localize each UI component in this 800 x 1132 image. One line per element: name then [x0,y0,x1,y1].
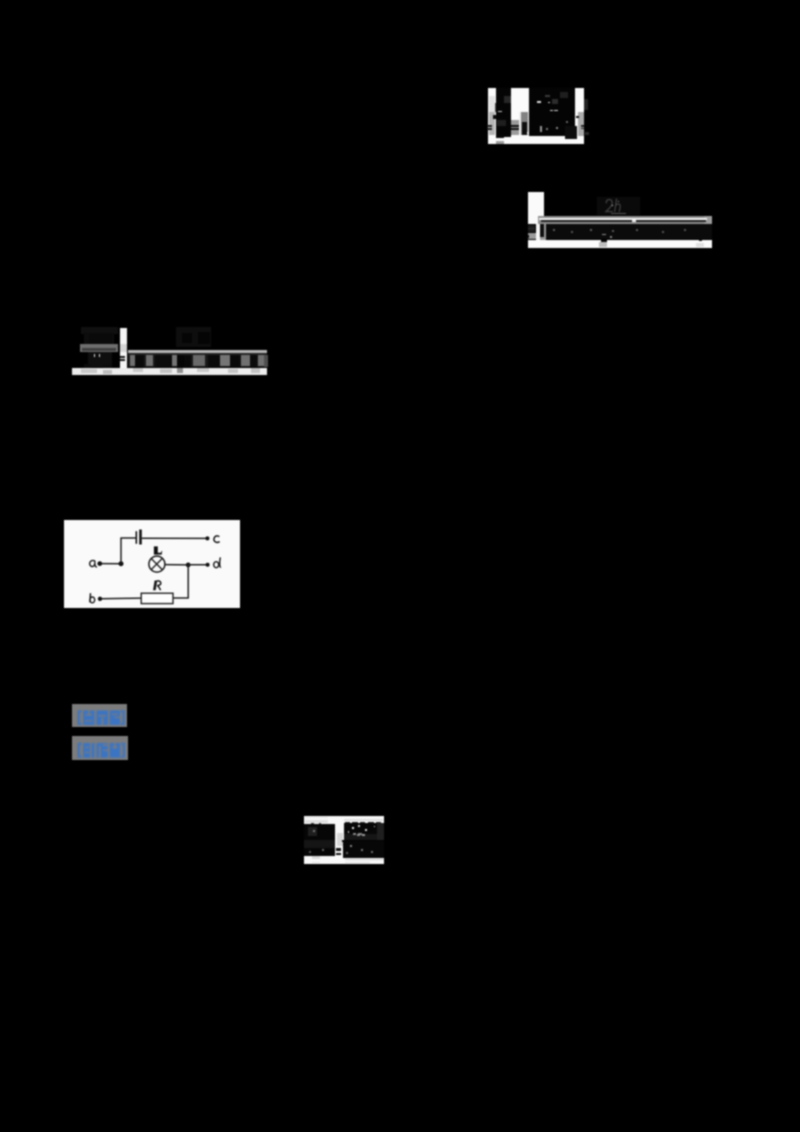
formula 1 left black glyph column [496,88,511,137]
junction dot top-left [118,561,123,566]
wire b to resistor [102,597,141,600]
node a terminal dot [97,561,102,566]
answer char glyph 3 [110,710,120,725]
formula 2 dark bar line [541,220,706,222]
analysis right bracket glyph [121,742,125,757]
formula 3 left fraction dark bar line [82,348,116,351]
formula 2 gray block under digit one [540,232,546,240]
node b label [89,593,94,603]
formula 4 white base patch [304,816,384,864]
formula 2 left column lower gray [528,233,536,240]
formula 1 col-B gray block right [521,112,528,135]
formula 4 center column shade [337,833,342,846]
formula 2 strip black nub [699,240,702,241]
formula 2 left white column [528,192,544,224]
panel background [64,520,240,608]
wire resistor to riser [173,597,189,599]
analysis char glyph 3 [110,743,120,758]
formula 2 white dash highlight on bar line [632,220,636,222]
answer left bracket glyph [78,710,82,725]
node d label [213,557,220,567]
wire junction2 to node d [188,563,206,565]
formula 3 right-end gray block [264,355,268,367]
formula 3 gap column gray segment [120,344,127,352]
wire a to junction [101,562,121,564]
formula 4 right masses lighter right ends [377,823,384,840]
wire lamp to junction2 [164,563,188,565]
formula 3 long fraction bar dark [128,353,267,355]
formula 1 col-B white sliver [519,112,522,135]
formula 4 right upper mass lower band [344,834,383,840]
junction dot middle-right [185,562,190,567]
formula 4 left glyph mass [304,824,335,856]
node c terminal dot [205,536,209,540]
node b terminal dot [97,596,101,600]
formula 2 numerator 2h faint backdrop [597,197,640,216]
circuit white panel [64,520,240,608]
formula 1 white base patch [488,88,584,144]
formula 1 col-B gray block left [511,120,518,135]
formula 4 left mass texture [308,827,317,836]
formula 3 left numerator glyph mass [84,332,114,344]
formula 1 faint texture right of patch [584,99,588,110]
formula 4 fraction bar line [342,840,384,842]
answer right bracket glyph [121,710,125,725]
lamp circle [148,556,164,572]
formula 4 right upper glyph mass [344,823,383,840]
lamp label L [153,546,161,554]
formula 4 right upper mass gray dashes [353,833,356,835]
formula 2 digit one [540,224,544,237]
formula 4 bottom-left texture [312,856,320,859]
formula 4 top-left texture [305,817,328,818]
formula 4 right lower mass specks [350,845,352,847]
wire junction2 down [187,564,189,597]
formula 3 left denominator white dots [94,354,96,357]
formula 1 dense kg glyph blob [565,126,577,139]
formula 1 left column lighter lower region [497,120,506,126]
formula 2 denominator bright dash [602,234,607,235]
analysis char glyph 1 [83,743,94,758]
formula 1 equals sign middle [511,125,519,127]
formula 2 equals sign backing [528,225,535,232]
formula 1 left column texture [504,96,512,103]
answer char glyph 2 [97,710,108,725]
formula 2 equals sign [528,225,535,228]
formula 3 left denominator descender blobs [84,364,91,370]
battery plate thick short [139,529,142,544]
formula 2 black notch [527,235,529,238]
answer box gray background [72,704,127,727]
formula 1 gray nub in bottom strip [496,141,504,145]
formula 3 white gap column [120,328,127,368]
formula 4 bottom strip texture [345,859,384,861]
lamp cross stroke 2 [151,558,162,569]
formula 1 col-A dark gray stripe [489,112,495,135]
formula 2 gray strip right of digit one [544,224,546,240]
formula 1 central big black block [529,88,576,136]
wire junction up [120,538,122,564]
wire battery to node c [141,537,205,539]
formula 2 dark denominator band [545,224,711,239]
formula 2 white gap column [536,224,540,240]
formula 1 faint mark right of patch [585,132,589,135]
formula 1 equals sign right [581,125,584,127]
formula 2 dim numerator 2h drawn as paths [604,196,636,216]
node c label [213,535,219,542]
resistor R body [141,593,173,603]
formula 2 gray fraction-bar band [538,216,712,225]
formula 2 black descender nub left [601,240,607,242]
formula 4 right-side overhang mid-gray [375,834,384,848]
formula 4 left descender [316,855,320,857]
formula 2 bottom white strip [528,240,712,248]
formula 3 equals sign [120,356,126,358]
formula 3 bottom white strip [72,368,267,376]
formula 2 denominator faint specks [553,229,555,231]
formula 3 right denominator gray gaps [130,355,135,366]
node a label [89,560,96,566]
formula 3 right numerator blob [176,327,211,347]
wire elbow to battery [120,537,135,539]
formula 1 col-A light gray stripe [489,96,495,112]
formula 2 numerator bright specks [612,205,614,207]
analysis left bracket glyph [78,742,82,757]
formula 1 small fraction bar crossing col A [493,115,496,119]
formula 1 white speck [527,132,529,134]
formula 3 left numerator faint fringe [81,327,118,334]
formula 4 top-right texture [344,819,383,822]
formula 3 left fraction gray band [80,344,117,352]
formula 1 digit one [522,122,527,134]
formula 3 left denominator glyph mass [88,352,112,367]
resistor label R [153,580,161,590]
formula 3 right denominator dark clusters [135,355,143,367]
formula 1 equals sign far-left [487,125,491,127]
formula 2 band light end piece [704,216,712,225]
formula 4 equals sign [336,848,341,851]
formula 2 faint underline below 2h [611,213,626,214]
formula 4 right upper mass specks [352,827,354,829]
node d terminal dot [205,562,209,566]
formula 2 strip gray nubs [696,243,704,248]
formula 3 bottom strip gray texture [81,369,97,373]
formula 3 right denominator row [128,355,267,368]
formula 3 tall dark glyph with descender [177,355,185,372]
analysis char glyph 2 [97,743,108,758]
battery plate thin long [135,531,137,544]
formula 1 central block texture [537,101,541,103]
formula 4 right lower glyph mass [343,841,384,858]
formula 1 black notch below column [496,135,504,138]
answer char glyph 1 [83,710,94,725]
formula 1 col-C gray block [578,112,585,136]
lamp cross stroke 1 [151,558,162,569]
analysis box gray background [72,736,128,760]
formula 2 bright fraction bar line [539,218,707,221]
formula 3 long fraction bar light [128,350,267,353]
